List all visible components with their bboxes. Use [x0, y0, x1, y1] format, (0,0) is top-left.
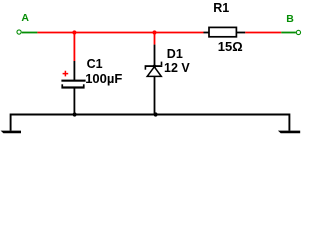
svg-text:R1: R1: [213, 1, 229, 15]
svg-text:C1: C1: [87, 57, 103, 71]
svg-text:100µF: 100µF: [85, 71, 122, 86]
svg-text:A: A: [21, 12, 29, 24]
svg-text:12 V: 12 V: [164, 61, 190, 75]
svg-text:D1: D1: [167, 47, 183, 61]
svg-text:B: B: [286, 13, 294, 25]
svg-text:15Ω: 15Ω: [218, 39, 243, 54]
